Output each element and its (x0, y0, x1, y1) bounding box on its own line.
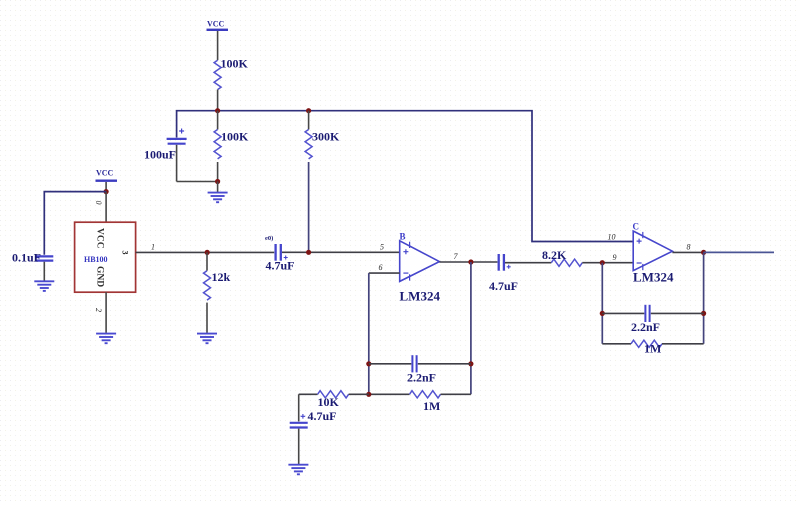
resistor R4 12k (204, 252, 231, 332)
capacitor C2 4.7uF (series, input of U1B) (265, 235, 295, 273)
capacitor C5 4.7uF (series, input of U1C) (489, 254, 518, 293)
capacitor C4 2.2nF (U1B feedback) (369, 355, 471, 384)
op-amp U1C LM324 (633, 222, 674, 285)
node: 2.2nF left junction (366, 361, 371, 366)
node: U1B output junction (468, 259, 473, 264)
wire: 8.2K to pin 9 (582, 262, 633, 264)
wire: output to right edge (704, 251, 774, 253)
resistor R7 8.2K (542, 248, 582, 266)
op-amp U1B LM324 (400, 232, 441, 304)
microphone module U? HB100 box (75, 222, 136, 292)
svg-text:1: 1 (151, 243, 155, 252)
svg-text:10K: 10K (318, 395, 340, 409)
svg-text:8.2K: 8.2K (542, 248, 567, 262)
wire: VCC node to 0.1uF (44, 192, 106, 255)
svg-text:100K: 100K (221, 57, 249, 71)
svg-text:8: 8 (687, 243, 691, 252)
node: 2.2nF right junction (468, 361, 473, 366)
ground (below R2) (208, 182, 228, 203)
svg-text:12k: 12k (212, 270, 231, 284)
resistor R3 300K (305, 111, 340, 253)
node: 12k junction (205, 250, 210, 255)
wire: feedback left vertical (pin6 down) (368, 273, 370, 394)
node: bus / R1-R2 junction (215, 108, 220, 113)
svg-text:VCC: VCC (95, 228, 105, 249)
ground (below 12k) (197, 334, 217, 344)
node: VCC branch junction (104, 189, 109, 194)
ground (below 0.1uF) (34, 281, 54, 291)
svg-text:B: B (400, 232, 406, 242)
resistor R1 100K (214, 57, 248, 111)
node: pin 9 junction (600, 260, 605, 265)
svg-text:LM324: LM324 (400, 289, 441, 304)
capacitor C 100uF (electrolytic) (144, 129, 218, 182)
node: U1C output junction (701, 250, 706, 255)
power VCC symbol (top) (207, 20, 229, 61)
node: 2.2nF right junction (U1C) (701, 311, 706, 316)
ground (below HB100) (96, 334, 116, 344)
svg-text:0: 0 (94, 201, 103, 205)
svg-text:C: C (633, 222, 640, 232)
wire: top bus from 100uF corner to right drop (177, 111, 634, 242)
node: 10K / 1M junction (366, 392, 371, 397)
resistor R8 1M (U1C feedback) (602, 340, 703, 355)
svg-text:4.7uF: 4.7uF (308, 409, 337, 423)
wire: VCC node to HB100 pin 0 (105, 192, 107, 223)
svg-text:4.7uF: 4.7uF (489, 279, 518, 293)
wire: HB100 pin 3 to C2 (136, 251, 275, 253)
node: R2 / 100uF junction (215, 179, 220, 184)
resistor R2 100K (214, 111, 249, 182)
wire: HB100 pin 2 to ground (105, 292, 107, 333)
svg-text:HB100: HB100 (84, 255, 108, 264)
resistor R6 10K (299, 391, 369, 409)
wire: U1B output (pin 7) (439, 261, 497, 263)
wire: pin 6 stub (369, 272, 400, 274)
svg-text:VCC: VCC (96, 169, 114, 178)
svg-text:VCC: VCC (207, 20, 225, 29)
capacitor C6 2.2nF (U1C feedback) (602, 305, 703, 334)
svg-text:10: 10 (608, 233, 616, 242)
svg-text:3: 3 (121, 251, 130, 255)
svg-text:100K: 100K (221, 130, 249, 144)
wire: C5 to 8.2K (505, 262, 551, 264)
wire: C2 to pin 5 (282, 251, 400, 253)
svg-text:0.1uF: 0.1uF (12, 251, 41, 265)
svg-text:1M: 1M (644, 342, 661, 356)
svg-text:2.2nF: 2.2nF (631, 320, 660, 334)
svg-text:2: 2 (94, 308, 103, 312)
ground (below C3) (288, 465, 308, 475)
svg-text:100uF: 100uF (144, 148, 176, 162)
wire: U1C feedback right vertical (703, 252, 705, 343)
wire: feedback right vertical (output down) (470, 262, 472, 394)
svg-text:300K: 300K (312, 130, 340, 144)
svg-text:4.7uF: 4.7uF (266, 259, 295, 273)
svg-text:9: 9 (613, 253, 617, 262)
svg-text:2.2nF: 2.2nF (407, 371, 436, 385)
capacitor C3 4.7uF (electrolytic, to ground) (290, 394, 337, 464)
svg-text:6: 6 (379, 263, 383, 272)
svg-text:GND: GND (95, 266, 105, 287)
wire: U1C feedback left vertical (601, 263, 603, 344)
resistor R5 1M (U1B feedback) (369, 391, 471, 413)
svg-text:e0): e0) (265, 235, 273, 242)
svg-text:1M: 1M (423, 399, 440, 413)
power VCC symbol (left, above HB100) (96, 169, 118, 192)
node: 300K / signal junction (306, 250, 311, 255)
node: 2.2nF left junction (U1C) (600, 311, 605, 316)
svg-text:5: 5 (380, 243, 384, 252)
wire: U1C output (pin 8) (672, 251, 703, 253)
capacitor C 0.1uF (12, 251, 53, 281)
svg-text:LM324: LM324 (633, 270, 674, 285)
node: bus / R3 junction (306, 108, 311, 113)
